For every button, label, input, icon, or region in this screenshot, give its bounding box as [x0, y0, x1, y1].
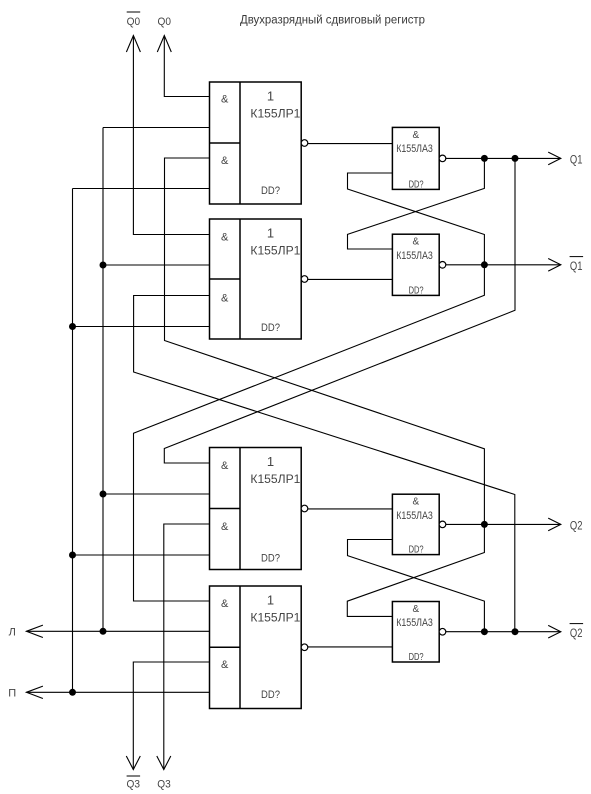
wire: DD1 pin3 – long diagonal – Q2 – DD8 pin1 — [165, 158, 485, 616]
svg-text:Q3: Q3 — [157, 779, 171, 791]
DD7 output inversion bubble — [439, 521, 446, 528]
overbar of Q̄2 — [570, 623, 584, 625]
NAND gate DD7 (K155LA3) body — [392, 494, 439, 554]
DD8 output inversion bubble — [439, 628, 446, 635]
wire: DD3 output to DD7 pin1 — [308, 508, 393, 510]
junction: bus П / П line — [69, 689, 76, 696]
wire: Q1 long diagonal to DD3 pin1 — [164, 158, 515, 463]
svg-text:&: & — [221, 94, 229, 106]
junction: bus Л / DD3 pin2 — [100, 491, 107, 498]
AOI gate DD3 (K155LR1) body — [210, 448, 302, 570]
junction: Q1 / feedback to DD6 — [481, 155, 488, 162]
junction: bus Л / DD2 pin2 — [100, 262, 107, 269]
DD3 output inversion bubble — [301, 505, 308, 512]
svg-text:К155ЛР1: К155ЛР1 — [250, 472, 300, 486]
svg-text:1: 1 — [267, 454, 274, 469]
svg-text:DD?: DD? — [409, 179, 424, 190]
svg-text:DD?: DD? — [409, 545, 424, 556]
svg-text:К155ЛР1: К155ЛР1 — [250, 106, 300, 120]
junction: Q̄2 / DD7 pin2 wire — [481, 628, 488, 635]
svg-text:&: & — [412, 237, 419, 248]
DD4 output inversion bubble — [301, 644, 308, 651]
svg-text:&: & — [412, 497, 419, 508]
svg-text:1: 1 — [267, 88, 274, 103]
DD2 output inversion bubble — [301, 276, 308, 283]
svg-text:&: & — [221, 598, 229, 610]
wire: DD5 pin2 – Q̄1 – long diagonal to DD4 pin1 — [134, 173, 485, 601]
svg-text:DD?: DD? — [261, 185, 280, 197]
svg-text:&: & — [412, 130, 419, 141]
svg-text:П: П — [8, 687, 16, 699]
svg-text:Q0: Q0 — [127, 16, 141, 28]
junction: bus Л / Л line — [100, 628, 107, 635]
svg-text:Q0: Q0 — [158, 16, 172, 28]
junction: Q2 / feedback vertical — [481, 521, 488, 528]
arrowhead Q2 (right) — [548, 518, 561, 531]
svg-text:Q2: Q2 — [570, 628, 583, 640]
wire: П input line to DD4 pin4 — [26, 691, 209, 693]
wire: DD1 output to DD5 pin1 — [308, 143, 393, 145]
arrowhead Q̄1 (right) — [548, 259, 561, 272]
svg-text:Q1: Q1 — [570, 154, 583, 166]
svg-text:&: & — [221, 293, 229, 305]
AOI gate DD1 (K155LR1) body — [210, 82, 302, 204]
wire: DD4 output to DD8 pin2 — [308, 646, 393, 648]
svg-text:&: & — [412, 604, 419, 615]
svg-text:&: & — [221, 521, 229, 533]
wire: Q1 to DD6 pin1 (cross-coupling) — [348, 158, 485, 249]
wire: bus Л to DD2 pin2 — [103, 264, 210, 266]
svg-text:DD?: DD? — [409, 652, 424, 663]
DD6 output inversion bubble — [439, 262, 446, 269]
wire: bus П vertical — [72, 189, 74, 693]
wire: bus П to DD1 pin4 — [73, 188, 210, 190]
arrowhead Q0 (up) — [157, 36, 171, 53]
svg-text:Q1: Q1 — [570, 261, 583, 273]
wire: Q0 terminal to DD1 pin1 — [164, 36, 209, 97]
svg-text:Q2: Q2 — [570, 520, 583, 532]
svg-text:К155ЛР1: К155ЛР1 — [250, 610, 300, 624]
wire: Л input line to DD4 pin2 — [26, 630, 209, 632]
DD5 output inversion bubble — [439, 155, 446, 162]
DD1 output inversion bubble — [301, 140, 308, 147]
junction: bus П / DD3 pin4 — [69, 552, 76, 559]
svg-text:К155ЛА3: К155ЛА3 — [396, 617, 433, 629]
arrowhead П (left) — [26, 686, 43, 698]
arrowhead Q3 (down) — [157, 756, 171, 770]
junction: Q̄2 / wire from DD2 — [512, 628, 519, 635]
svg-text:&: & — [221, 155, 229, 167]
svg-text:&: & — [221, 659, 229, 671]
svg-text:Двухразрядный сдвиговый регист: Двухразрядный сдвиговый регистр — [240, 15, 425, 27]
arrowhead Q̄0 (up) — [126, 36, 140, 53]
svg-text:К155ЛА3: К155ЛА3 — [396, 250, 433, 262]
AOI gate DD4 (K155LR1) body — [210, 586, 302, 709]
svg-text:1: 1 — [267, 225, 274, 240]
AOI gate DD2 (K155LR1) body — [210, 219, 302, 339]
svg-text:&: & — [221, 460, 229, 472]
svg-text:1: 1 — [267, 592, 274, 607]
arrowhead Q̄3 (down) — [126, 756, 140, 770]
arrowhead Q1 (right) — [548, 152, 561, 165]
NAND gate DD6 (K155LA3) body — [392, 234, 439, 295]
svg-text:&: & — [221, 232, 229, 244]
svg-text:К155ЛР1: К155ЛР1 — [250, 243, 300, 257]
overbar of Q̄0 — [127, 11, 141, 13]
arrowhead Л (left) — [26, 625, 43, 637]
wire: DD4 pin3 to Q̄3 terminal — [133, 662, 209, 770]
junction: bus П / DD2 pin4 — [69, 323, 76, 330]
svg-text:DD?: DD? — [409, 285, 424, 296]
svg-text:К155ЛА3: К155ЛА3 — [396, 143, 433, 155]
wire: bus П to DD3 pin4 — [73, 554, 210, 556]
svg-text:К155ЛА3: К155ЛА3 — [396, 510, 433, 522]
wire: DD8 output Q̄2 line — [446, 631, 561, 633]
wire: DD7 pin2 to Q̄2 — [348, 540, 485, 632]
svg-text:Q3: Q3 — [127, 779, 141, 791]
NAND gate DD8 (K155LA3) body — [392, 602, 439, 663]
wire: DD3 pin3 to Q3 terminal — [164, 524, 210, 770]
overbar of Q̄3 — [127, 775, 141, 777]
svg-text:DD?: DD? — [261, 689, 280, 701]
junction: Q1 / wire to DD3 — [512, 155, 519, 162]
NAND gate DD5 (K155LA3) body — [392, 127, 439, 189]
svg-text:DD?: DD? — [261, 552, 280, 564]
wire: Q̄0 terminal to DD2 pin1 — [133, 36, 209, 235]
overbar of Q̄1 — [570, 256, 584, 258]
wire: DD5 output Q1 line — [446, 157, 561, 159]
junction: Q̄1 / cross wires — [481, 261, 488, 268]
svg-text:DD?: DD? — [261, 322, 280, 334]
wire: DD6 output Q̄1 line — [446, 264, 561, 266]
svg-text:Л: Л — [9, 627, 16, 639]
arrowhead Q̄2 (right) — [548, 625, 561, 638]
wire: bus П to DD2 pin4 — [73, 326, 210, 328]
wire: DD2 output to DD6 pin2 — [308, 278, 393, 280]
wire: bus Л vertical — [102, 128, 104, 632]
wire: bus Л to DD3 pin2 — [103, 493, 210, 495]
wire: bus Л to DD1 pin2 — [103, 127, 210, 129]
wire: DD7 output Q2 line — [446, 523, 561, 525]
wire: DD2 pin3 long diagonal to Q̄2 — [134, 296, 515, 632]
